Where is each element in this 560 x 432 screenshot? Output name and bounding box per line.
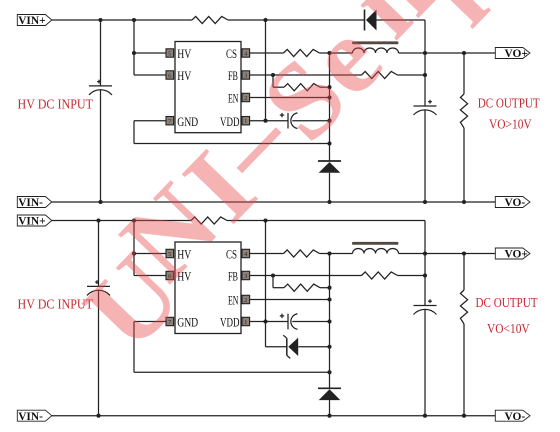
wire diode to output corner (top) bbox=[377, 20, 426, 53]
svg-text:VO-: VO- bbox=[505, 411, 526, 423]
wire FB pin (bottom) bbox=[250, 273, 362, 277]
capacitor C21 input bbox=[87, 280, 110, 295]
svg-text:VIN-: VIN- bbox=[18, 411, 43, 423]
pin 5 HV (U1) bbox=[166, 49, 174, 58]
wire load bottom (bottom) bbox=[462, 324, 466, 418]
text HV DC INPUT (top) bbox=[18, 98, 94, 113]
svg-text:2: 2 bbox=[244, 297, 247, 304]
svg-text:FB: FB bbox=[228, 269, 238, 284]
wire VIN+ to VDD vertical (top) bbox=[263, 18, 267, 123]
inductor L2 core bar bbox=[352, 242, 399, 245]
wire zener left bbox=[266, 346, 287, 348]
pin 3 FB (U1) bbox=[242, 71, 250, 80]
svg-text:CS: CS bbox=[226, 46, 237, 61]
zener diode D24 bbox=[283, 335, 298, 358]
resistor R25 load bbox=[460, 290, 467, 324]
pin label CS (U2) bbox=[226, 247, 237, 262]
pin label HV2 (U2) bbox=[177, 269, 191, 284]
wire HV branch (top) bbox=[132, 18, 166, 75]
capacitor C11 input bbox=[89, 80, 112, 95]
wire input cap to VIN- (top) bbox=[98, 90, 102, 204]
wire node column (bottom) bbox=[329, 254, 331, 389]
resistor R14 feedback upper bbox=[362, 71, 398, 78]
svg-text:DC OUTPUT: DC OUTPUT bbox=[476, 296, 538, 311]
inductor L2 bbox=[353, 249, 399, 254]
wire node column (top) bbox=[329, 53, 331, 161]
diode D22 freewheel bbox=[318, 388, 341, 400]
pin label FB (U1) bbox=[228, 68, 238, 83]
svg-text:HV: HV bbox=[177, 46, 191, 61]
pin label VDD (U2) bbox=[220, 315, 240, 330]
pin 1 VDD (U2) bbox=[242, 317, 250, 326]
svg-text:EN: EN bbox=[228, 293, 239, 308]
resistor R24 feedback upper bbox=[362, 272, 398, 279]
diode D12 freewheel bbox=[318, 161, 341, 173]
wire load top (bottom) bbox=[463, 254, 465, 291]
text DC OUTPUT (top) bbox=[478, 97, 540, 112]
wire inductor to output (bottom) bbox=[399, 251, 428, 255]
wire output column (bottom) bbox=[424, 254, 426, 306]
svg-text:VO<10V: VO<10V bbox=[487, 322, 530, 337]
net label VO+ (bottom) bbox=[495, 248, 530, 261]
resistor R11 startup bbox=[192, 16, 228, 23]
wire VDD pin (top) bbox=[250, 120, 288, 122]
net label VIN+ (top) bbox=[17, 15, 52, 28]
net label VIN+ (bottom) bbox=[17, 215, 52, 228]
wire load top (top) bbox=[463, 53, 465, 94]
svg-text:VO+: VO+ bbox=[505, 48, 528, 60]
wire output cap to VO- (bottom) bbox=[423, 310, 427, 418]
capacitor C22 VDD bypass bbox=[280, 314, 298, 330]
op-amp U2 regulator IC body bbox=[175, 242, 241, 334]
pin 3 FB (U2) bbox=[242, 271, 250, 280]
pin label EN (U1) bbox=[228, 91, 239, 106]
wire FB resistor to output column (top) bbox=[398, 73, 428, 77]
wire load bottom (top) bbox=[462, 128, 466, 204]
wire diode to VIN- (top) bbox=[327, 173, 331, 204]
wire VIN-/VO- rail (bottom) bbox=[52, 415, 496, 417]
svg-text:VDD: VDD bbox=[220, 315, 240, 330]
wire FB divider leg (bottom) bbox=[273, 276, 284, 288]
wire EN pin to node column (bottom) bbox=[250, 297, 332, 301]
resistor R22 current sense bbox=[284, 250, 320, 257]
svg-text:HV DC INPUT: HV DC INPUT bbox=[18, 98, 94, 113]
text DC OUTPUT (bottom) bbox=[476, 296, 538, 311]
wire EN pin to node column (top) bbox=[250, 95, 332, 99]
pin label GND (U2) bbox=[177, 315, 198, 330]
pin label FB (U2) bbox=[228, 269, 238, 284]
wire VO+ line (bottom) bbox=[425, 251, 495, 255]
wire FB pin (top) bbox=[250, 73, 362, 77]
wire input cap to VIN- (bottom) bbox=[96, 291, 100, 418]
wire VIN+ rail left (bottom) bbox=[52, 220, 191, 222]
inductor L1 bbox=[353, 48, 399, 53]
pin label EN (U2) bbox=[228, 293, 239, 308]
svg-text:VIN+: VIN+ bbox=[18, 15, 45, 27]
wire zener to node column bbox=[298, 345, 331, 349]
pin label HV2 (U1) bbox=[177, 68, 191, 83]
wire VO+ line (top) bbox=[425, 51, 495, 55]
pin label HV1 (U1) bbox=[177, 46, 191, 61]
wire CS to node (top) bbox=[320, 51, 332, 55]
pin 7 GND (U2) bbox=[166, 317, 174, 326]
watermark UNI-Semi bbox=[61, 0, 510, 372]
svg-text:HV: HV bbox=[177, 68, 191, 83]
svg-text:DC OUTPUT: DC OUTPUT bbox=[478, 97, 540, 112]
wire CS pin (top) bbox=[250, 52, 284, 54]
text VO>10V (top) bbox=[489, 118, 532, 133]
capacitor C23 output bbox=[414, 299, 437, 314]
wire node to inductor (top) bbox=[330, 52, 353, 54]
text VO<10V (bottom) bbox=[487, 322, 530, 337]
wire VIN+ rail right (bottom) bbox=[227, 221, 425, 254]
wire VDD cap to node column (bottom) bbox=[292, 319, 331, 323]
wire GND return (top) bbox=[134, 121, 332, 146]
resistor R23 feedback lower bbox=[284, 284, 320, 291]
wire node to inductor (bottom) bbox=[330, 253, 353, 255]
wire input cap branch (top) bbox=[98, 18, 102, 86]
pin 5 HV (U2) bbox=[166, 249, 174, 258]
svg-text:3: 3 bbox=[244, 273, 247, 280]
pin label VDD (U1) bbox=[220, 114, 240, 129]
resistor R15 load bbox=[460, 94, 467, 128]
net label VIN- (bottom) bbox=[17, 410, 52, 423]
svg-text:VIN-: VIN- bbox=[18, 197, 43, 209]
pin label HV1 (U2) bbox=[177, 247, 191, 262]
pin 4 CS (U1) bbox=[242, 49, 250, 58]
wire GND return (bottom) bbox=[134, 322, 332, 375]
resistor R12 current sense bbox=[284, 49, 320, 56]
wire VIN-/VO- rail (top) bbox=[52, 201, 496, 203]
wire diode to VIN- (bottom) bbox=[327, 400, 331, 418]
svg-text:1: 1 bbox=[244, 319, 247, 326]
net label VIN- (top) bbox=[17, 197, 52, 210]
pin label GND (U1) bbox=[177, 114, 198, 129]
wire VIN+ rail left (top) bbox=[52, 19, 192, 21]
wire CS pin (bottom) bbox=[250, 253, 284, 255]
pin 6 HV (U1) bbox=[166, 71, 174, 80]
svg-text:VO>10V: VO>10V bbox=[489, 118, 532, 133]
op-amp U1 regulator IC body bbox=[175, 42, 241, 133]
wire VIN+ to VDD vertical (bottom) bbox=[263, 218, 267, 346]
pin 7 GND (U1) bbox=[166, 117, 174, 126]
pin 4 CS (U2) bbox=[242, 249, 250, 258]
svg-text:VO-: VO- bbox=[505, 197, 526, 209]
wire inductor to output (top) bbox=[399, 51, 428, 55]
wire VIN+ rail to diode (top) bbox=[228, 19, 365, 21]
net label VO- (bottom) bbox=[495, 410, 530, 423]
wire VDD pin (bottom) bbox=[250, 321, 288, 323]
wire FB divider leg (top) bbox=[273, 75, 284, 87]
resistor R21 startup bbox=[191, 217, 227, 224]
wire FB resistor to output column (bottom) bbox=[398, 273, 428, 277]
net label VO- (top) bbox=[495, 197, 530, 210]
wire input cap branch (bottom) bbox=[96, 218, 100, 286]
pin 1 VDD (U1) bbox=[242, 117, 250, 126]
diode D11 bbox=[365, 10, 377, 31]
wire output cap to VO- (top) bbox=[423, 110, 427, 204]
svg-text:VO+: VO+ bbox=[505, 249, 528, 261]
wire divider to node column (bottom) bbox=[320, 286, 332, 290]
resistor R13 feedback lower bbox=[284, 84, 320, 91]
pin 2 EN (U1) bbox=[242, 93, 250, 102]
text HV DC INPUT (bottom) bbox=[18, 298, 94, 313]
pin 2 EN (U2) bbox=[242, 295, 250, 304]
capacitor C12 VDD bypass bbox=[280, 113, 298, 129]
wire HV branch (bottom) bbox=[132, 218, 166, 275]
svg-text:VIN+: VIN+ bbox=[18, 216, 45, 228]
wire VDD cap to node column (top) bbox=[292, 119, 331, 123]
pin 6 HV (U2) bbox=[166, 271, 174, 280]
pin label CS (U1) bbox=[226, 46, 237, 61]
net label VO+ (top) bbox=[495, 48, 530, 61]
inductor L1 core bar bbox=[352, 41, 399, 44]
svg-text:FB: FB bbox=[228, 68, 238, 83]
capacitor C13 output bbox=[414, 100, 437, 115]
wire CS to node (bottom) bbox=[320, 251, 332, 255]
wire output column (top) bbox=[424, 53, 426, 106]
wire divider to node column (top) bbox=[320, 85, 332, 89]
svg-text:5: 5 bbox=[168, 50, 171, 57]
